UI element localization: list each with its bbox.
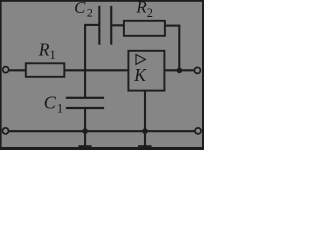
- op-amp U1 box: [128, 51, 164, 91]
- node junction dot feedback/output: [177, 68, 183, 74]
- terminal bottom-right: [195, 128, 201, 134]
- terminal output right: [194, 67, 200, 73]
- frame border: [0, 0, 204, 150]
- node junction dot amp/rail: [142, 128, 148, 134]
- svg-text:R1: R1: [38, 39, 56, 61]
- wire input terminal to R1: [9, 69, 26, 71]
- wire C2 right plate to R2: [112, 24, 125, 26]
- op-amp triangle glyph: [136, 55, 145, 65]
- terminal input left: [3, 67, 9, 73]
- capacitor C1: [66, 97, 104, 109]
- svg-text:C1: C1: [44, 93, 64, 116]
- node junction dot C1/rail: [82, 128, 88, 134]
- wire node to C2 left plate: [84, 24, 98, 26]
- svg-text:C2: C2: [74, 0, 93, 20]
- wire R1 to amplifier input: [64, 69, 129, 71]
- wire feedback vertical to output: [178, 25, 180, 71]
- svg-text:K: K: [133, 65, 147, 85]
- wire amplifier bottom to ground rail and foot: [144, 91, 146, 147]
- wire bottom ground rail: [9, 130, 195, 132]
- resistor R1: [26, 63, 65, 77]
- terminal bottom-left: [3, 128, 9, 134]
- wire node column x=85 (C2 tap down through mid wire to C1): [84, 25, 86, 98]
- wire R2 right to feedback drop: [165, 25, 180, 27]
- svg-text:R2: R2: [135, 0, 153, 20]
- wire C1 bottom plate to ground rail and foot: [84, 108, 86, 147]
- ground foot under C1 column: [78, 145, 91, 149]
- resistor R2: [124, 21, 165, 36]
- wire amplifier output to terminal: [164, 69, 195, 71]
- capacitor C2: [98, 6, 112, 45]
- ground foot under amplifier column: [138, 145, 152, 149]
